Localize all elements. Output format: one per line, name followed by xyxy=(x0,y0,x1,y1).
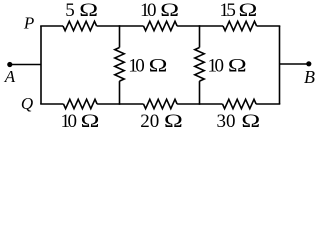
svg-text:Ω: Ω xyxy=(241,110,260,131)
wire bottom rail R8 to right rail xyxy=(256,103,280,105)
terminal dot A xyxy=(7,62,12,67)
resistor R2 10 ohm (top middle) xyxy=(144,21,178,30)
svg-text:10: 10 xyxy=(61,111,78,132)
wire node D lower stub xyxy=(199,81,201,105)
value label R4: 10 ohm xyxy=(128,54,167,76)
resistor R5 10 ohm (vertical right) xyxy=(195,48,204,82)
wire node D upper stub xyxy=(199,25,201,47)
terminal dot B xyxy=(306,61,311,66)
svg-text:Ω: Ω xyxy=(228,54,247,75)
value label R5: 10 ohm xyxy=(208,54,247,76)
value label R2: 10 ohm xyxy=(140,0,179,21)
resistor R6 10 ohm (bottom left) xyxy=(64,99,98,108)
node label B xyxy=(304,67,315,87)
value label R3: 15 ohm xyxy=(219,0,257,21)
svg-text:Ω: Ω xyxy=(238,0,257,20)
svg-text:20: 20 xyxy=(140,111,159,132)
wire node C lower stub xyxy=(119,81,121,105)
wire left rail P to Q xyxy=(40,26,42,104)
svg-text:Ω: Ω xyxy=(149,54,168,75)
svg-text:P: P xyxy=(23,14,34,33)
wire from terminal A to left rail xyxy=(10,64,41,66)
value label R1: 5 ohm xyxy=(65,0,98,21)
svg-text:Q: Q xyxy=(21,94,33,113)
svg-text:B: B xyxy=(304,67,315,87)
svg-text:Ω: Ω xyxy=(164,110,183,131)
resistor R8 30 ohm xyxy=(223,99,257,108)
resistor R4 10 ohm (vertical left) xyxy=(115,48,124,82)
value label R6: 10 ohm xyxy=(61,110,100,132)
wire top rail R2 to node D xyxy=(177,25,223,27)
wire bottom rail R7 to node D xyxy=(177,103,222,105)
svg-text:Ω: Ω xyxy=(79,0,98,20)
svg-text:10: 10 xyxy=(140,0,157,21)
svg-text:Ω: Ω xyxy=(81,110,100,131)
svg-text:15: 15 xyxy=(219,0,236,21)
resistor R7 20 ohm xyxy=(144,99,178,108)
wire node C upper stub xyxy=(119,25,121,47)
svg-text:Ω: Ω xyxy=(160,0,179,20)
node label A xyxy=(4,67,16,86)
value label R7: 20 ohm xyxy=(140,110,182,132)
value label R8: 30 ohm xyxy=(217,110,261,132)
wire top rail R1 to node C xyxy=(97,25,144,27)
node label Q xyxy=(21,94,33,113)
wire right rail xyxy=(279,26,281,104)
wire top rail R3 to right rail xyxy=(257,25,281,27)
svg-text:5: 5 xyxy=(65,0,75,21)
svg-text:A: A xyxy=(4,67,16,86)
wire bottom rail Q to R6 xyxy=(40,103,63,105)
resistor R1 5 ohm xyxy=(63,21,97,30)
node label P xyxy=(23,14,34,33)
svg-text:30: 30 xyxy=(217,111,236,132)
wire bottom rail R6 to node C xyxy=(97,103,143,105)
svg-text:10: 10 xyxy=(208,55,225,76)
resistor R3 15 ohm xyxy=(223,21,257,30)
svg-text:10: 10 xyxy=(128,55,145,76)
wire top rail P to R1 xyxy=(40,25,63,27)
wire right rail to terminal B xyxy=(280,63,309,65)
